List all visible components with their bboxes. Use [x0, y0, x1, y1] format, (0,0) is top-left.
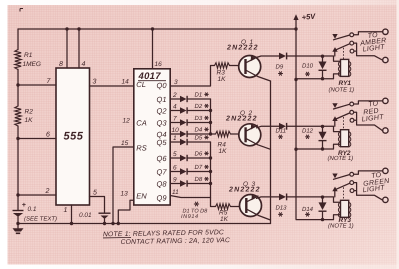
label TO RED LIGHT	[361, 100, 384, 123]
svg-text:1K: 1K	[220, 216, 229, 223]
node: D7 bus	[209, 170, 212, 173]
wire: Q9 pin 11 to bus	[170, 196, 210, 198]
diode D1	[180, 96, 187, 102]
svg-text:EN: EN	[136, 192, 147, 201]
svg-text:D10: D10	[302, 63, 314, 70]
label D13*	[276, 204, 288, 216]
relay RY1 coil	[338, 59, 350, 76]
node: EN to rail	[117, 222, 120, 225]
wire: 555 pin 6	[18, 138, 56, 140]
svg-text:10: 10	[172, 127, 180, 134]
label D7*	[195, 164, 209, 171]
svg-text:RY1: RY1	[339, 80, 352, 87]
svg-text:15: 15	[121, 140, 129, 147]
svg-text:14: 14	[122, 79, 130, 86]
svg-text:(SEE TEXT): (SEE TEXT)	[24, 216, 57, 223]
label D1 TO D8 IN914	[181, 209, 208, 221]
diode D8	[180, 180, 187, 186]
svg-text:CL: CL	[136, 80, 146, 89]
wire: D6 to bus	[187, 157, 210, 159]
label D11*	[276, 127, 287, 139]
svg-text:1K: 1K	[219, 148, 228, 155]
svg-text:2N2222: 2N2222	[228, 187, 261, 194]
terminal upper	[383, 29, 388, 34]
node: D14 bottom junction	[321, 218, 324, 221]
diode D9	[279, 53, 286, 60]
label RY1 (NOTE 1)	[329, 80, 355, 94]
wire: Q3 output stub	[170, 122, 180, 124]
wire: +5V to relay coil bottom	[296, 74, 341, 79]
capacitor C1 0.1	[13, 211, 24, 224]
node: pin7 junction	[16, 83, 19, 86]
wire: RY1 upper contact to terminal	[354, 32, 382, 35]
capacitor C2 0.01	[99, 213, 111, 223]
timer U1 555 box	[56, 68, 90, 205]
diode D5	[180, 139, 187, 145]
node: 4017 pin16 riser junction	[151, 27, 154, 30]
node: D8 bus	[209, 182, 212, 185]
svg-text:(NOTE 1): (NOTE 1)	[329, 87, 355, 94]
svg-text:D1: D1	[195, 91, 203, 98]
wire: Q5 output stub	[170, 141, 180, 143]
svg-text:D4: D4	[195, 126, 203, 133]
svg-text:0.1: 0.1	[28, 206, 37, 213]
wire: emitter bus to ground rail	[270, 81, 272, 224]
label D3*	[195, 115, 209, 122]
counter U2 4017 box	[134, 69, 170, 205]
wire: D1 to bus	[187, 98, 210, 100]
relay RY1 linkage	[343, 48, 345, 60]
relay RY2 coil	[338, 130, 350, 147]
node: D10 bottom junction	[321, 77, 324, 80]
wire: R4 to Q2 base	[231, 133, 239, 135]
svg-text:4: 4	[82, 61, 86, 68]
label D6*	[195, 150, 209, 157]
svg-text:1: 1	[64, 207, 68, 214]
svg-text:Q6: Q6	[156, 154, 167, 163]
label D1*	[195, 91, 209, 98]
diode D10 flyback	[319, 56, 327, 79]
wire: Q0 pin 3 to R3	[170, 66, 214, 87]
label D8*	[195, 176, 209, 183]
wire: D5 to bus	[187, 141, 210, 143]
wire: 555 pin 7	[18, 84, 56, 86]
node: D10 top	[321, 55, 324, 58]
wire: green diode bus D5-D8 plus Q9	[211, 142, 216, 207]
node: D4 bus	[209, 132, 212, 135]
wire: RY3 upper contact to terminal	[354, 171, 382, 174]
svg-text:(NOTE 1): (NOTE 1)	[328, 223, 354, 230]
diode D14 flyback	[319, 197, 327, 220]
wire: D3 to bus	[187, 122, 210, 124]
svg-text:D2: D2	[195, 103, 203, 110]
diode D6	[180, 155, 187, 161]
node: pin8 riser junction	[65, 27, 68, 30]
svg-text:0.01: 0.01	[79, 212, 92, 219]
wire: R3 to Q1 base	[230, 65, 239, 67]
terminal upper	[383, 98, 388, 103]
label Q2 2N2222	[225, 110, 258, 123]
wire: Q1 output stub	[170, 98, 180, 100]
svg-text:6: 6	[173, 165, 177, 172]
wire: 4017 pin 15 reset to ground	[113, 147, 134, 224]
svg-text:D12: D12	[302, 127, 314, 134]
svg-text:RS: RS	[136, 144, 146, 153]
label D12*	[302, 127, 314, 139]
svg-text:2N2222: 2N2222	[225, 116, 258, 123]
svg-text:4: 4	[173, 104, 177, 111]
node: pin2 junction	[16, 193, 19, 196]
svg-text:+5V: +5V	[301, 12, 316, 22]
svg-text:D11: D11	[276, 127, 287, 134]
wire: Q7 output stub	[170, 171, 180, 173]
svg-text:IN914: IN914	[181, 214, 199, 220]
svg-text:(NOTE 1): (NOTE 1)	[328, 155, 354, 162]
svg-text:6: 6	[46, 132, 50, 139]
node: D3 bus	[209, 121, 212, 124]
label D2*	[195, 103, 209, 110]
wire: red diode bus D1-D4	[210, 99, 212, 134]
svg-text:D6: D6	[195, 150, 203, 157]
resistor R4	[211, 133, 216, 135]
svg-text:R1: R1	[24, 52, 33, 59]
svg-text:D8: D8	[195, 176, 203, 183]
svg-text:1MEG: 1MEG	[23, 61, 41, 68]
svg-text:9: 9	[173, 177, 177, 184]
wire: D7 to bus	[187, 171, 210, 173]
wire: Q4 output stub	[170, 133, 180, 135]
wire: +5V to relay coil bottom	[296, 215, 341, 220]
node: D12 top	[321, 125, 324, 128]
label Q3 2N2222	[228, 181, 261, 194]
svg-text:2: 2	[45, 188, 50, 195]
wire: RY3 lower contacts to terminal	[354, 183, 382, 200]
svg-text:Q0: Q0	[156, 81, 167, 90]
wire: D8 to bus	[187, 183, 210, 185]
wire: D2 to bus	[187, 110, 210, 112]
footnote star	[194, 202, 199, 207]
diode D2	[180, 107, 187, 113]
terminal lower	[383, 197, 388, 202]
transistor Q1 2N2222	[239, 56, 271, 82]
wire: R5 to Q3 base	[231, 206, 240, 208]
svg-text:1: 1	[173, 135, 177, 142]
relay RY1 contacts	[332, 33, 354, 56]
svg-text:2N2222: 2N2222	[226, 45, 259, 52]
svg-text:5: 5	[173, 151, 177, 158]
wire: 555 pin 1 to ground	[71, 205, 73, 224]
node: pin1 to rail	[70, 222, 73, 225]
node: +5V bus to RY2	[294, 148, 297, 151]
wire: Q8 output stub	[170, 183, 180, 185]
diode D3	[180, 119, 187, 125]
resistor R1	[15, 50, 21, 70]
svg-text:1K: 1K	[218, 76, 227, 83]
wire: +5V top rail	[18, 28, 296, 30]
relay RY3 contacts	[332, 172, 354, 196]
svg-text:1K: 1K	[25, 117, 34, 124]
node: D12 bottom junction	[321, 147, 324, 150]
node: +5V rail corner	[294, 27, 297, 30]
svg-text:Q8: Q8	[156, 180, 167, 189]
ground	[13, 224, 24, 234]
svg-text:Q2: Q2	[156, 107, 167, 116]
wire: RY1 lower contacts to terminal	[354, 43, 382, 60]
svg-text:Q9: Q9	[156, 194, 167, 203]
+5V supply arrow	[293, 14, 298, 29]
wire: RY2 lower contacts to terminal	[354, 112, 382, 130]
transistor Q2 2N2222	[239, 124, 271, 150]
svg-text:D9: D9	[276, 64, 284, 71]
wire: 555 pin 8 to +5V	[66, 29, 68, 68]
transistor Q3 2N2222	[240, 195, 271, 221]
label 4017	[138, 71, 167, 82]
terminal lower	[383, 57, 388, 62]
label RY2 (NOTE 1)	[328, 150, 354, 162]
svg-text:Q7: Q7	[156, 168, 167, 177]
wire: bottom ground rail	[18, 223, 271, 225]
svg-text:2: 2	[172, 92, 177, 99]
relay RY3 coil	[338, 200, 350, 217]
svg-text:16: 16	[155, 61, 163, 68]
svg-text:D13: D13	[276, 204, 288, 211]
label D10*	[302, 63, 314, 77]
wire: Q2 output stub	[170, 110, 180, 112]
wire: 555 pin 5	[90, 197, 105, 213]
svg-text:Q3: Q3	[156, 119, 167, 128]
svg-text:12: 12	[123, 118, 131, 125]
diode D11	[279, 123, 286, 130]
terminal lower	[383, 128, 388, 133]
wire: RY2 upper contact to terminal	[354, 101, 382, 104]
svg-text:Q1: Q1	[156, 95, 166, 104]
relay RY3 linkage	[343, 187, 345, 200]
node: D14 top	[321, 195, 324, 198]
wire: +5V vertical bus to relays	[295, 29, 297, 219]
svg-text:D7: D7	[195, 164, 203, 171]
label D5*	[195, 134, 209, 141]
svg-text:11: 11	[172, 189, 179, 196]
node: +5V bus to RY1	[294, 78, 297, 81]
node: C1 to ground rail	[16, 222, 19, 225]
node: RS to rail	[111, 222, 114, 225]
wire: D13 to relay coil top	[287, 197, 341, 202]
label + 0.1 (SEE TEXT)	[22, 202, 57, 223]
diode D4	[180, 131, 187, 137]
resistor R5	[216, 204, 231, 210]
wire: Q1 collector line	[257, 56, 280, 58]
relay RY2 contacts	[332, 102, 354, 126]
svg-text:Q5: Q5	[156, 138, 167, 147]
wire: 4017 pin 13 enable to ground	[118, 200, 134, 223]
resistor R2	[15, 106, 21, 126]
svg-text:3: 3	[93, 79, 97, 86]
wire: +5V to relay coil bottom	[296, 144, 341, 149]
svg-text:R2: R2	[25, 109, 34, 116]
svg-text:555: 555	[64, 131, 84, 143]
wire: D9 to relay coil top	[287, 56, 341, 61]
terminal upper	[383, 168, 388, 173]
wire: D4 to bus	[187, 133, 210, 135]
resistor R3	[215, 63, 230, 69]
svg-text:13: 13	[121, 191, 129, 198]
svg-text:7: 7	[173, 116, 177, 123]
svg-text:D14: D14	[302, 206, 314, 213]
wire: Q3 collector line	[257, 197, 280, 199]
svg-text:8: 8	[59, 61, 63, 68]
wire: D11 to relay coil top	[287, 126, 341, 131]
svg-text:CA: CA	[136, 119, 146, 128]
svg-text:+: +	[22, 202, 26, 209]
wire: Q2 collector line	[257, 126, 280, 128]
svg-text:D5: D5	[195, 134, 203, 141]
svg-text:D3: D3	[195, 115, 203, 122]
relay RY2 linkage	[343, 117, 345, 130]
diode D12 flyback	[319, 126, 327, 149]
svg-text:3: 3	[174, 79, 178, 86]
diode D7	[180, 168, 187, 174]
node: pin6 junction	[16, 137, 19, 140]
wire: left vertical timing chain	[17, 29, 19, 210]
label Q1 2N2222	[226, 39, 259, 52]
wire: Q6 output stub	[170, 157, 180, 159]
label D4*	[195, 126, 209, 133]
node: D2 bus	[209, 109, 212, 112]
label TO AMBER LIGHT	[359, 32, 387, 54]
label TO GREEN LIGHT	[362, 172, 390, 195]
node: pin4 riser junction	[77, 27, 80, 30]
wire: 4017 pin 16 to +5V	[152, 29, 154, 69]
node: C2 to rail	[103, 222, 106, 225]
diode D13	[279, 194, 286, 201]
wire: 555 pin 2	[18, 194, 56, 196]
wire: 555 pin 3 to 4017 pin 14	[90, 85, 134, 87]
label RY3 (NOTE 1)	[328, 217, 354, 230]
node: D6 bus	[209, 156, 212, 159]
note text	[103, 229, 230, 246]
svg-text:5: 5	[93, 190, 97, 197]
wire: 555 pin 4 to +5V	[78, 29, 80, 68]
label D9*	[276, 64, 284, 76]
label D14*	[302, 206, 314, 217]
